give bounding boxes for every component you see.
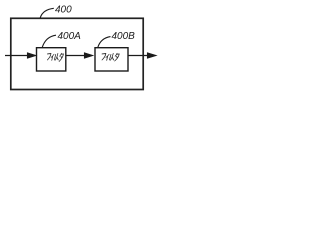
svg-text:400B: 400B [112, 31, 136, 42]
svg-text:400: 400 [55, 5, 72, 16]
svg-text:400A: 400A [58, 31, 82, 42]
